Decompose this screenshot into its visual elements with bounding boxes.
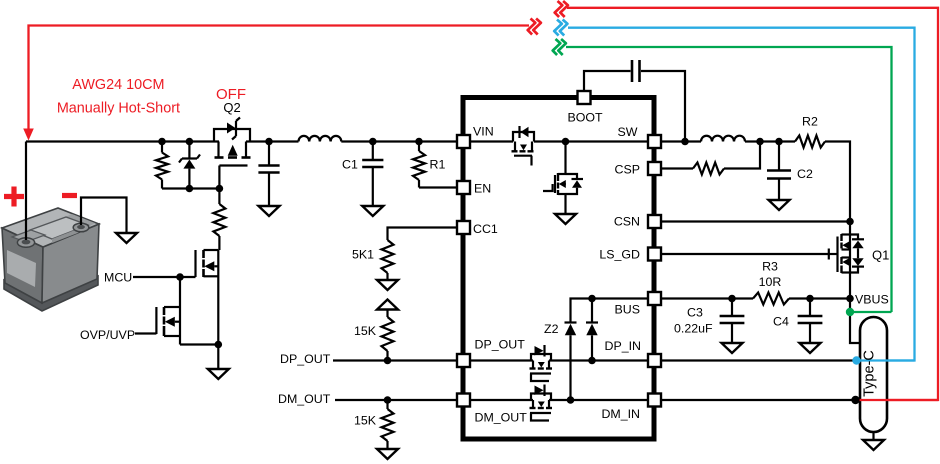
ground gate driver bbox=[208, 369, 229, 379]
pin CSP bbox=[648, 162, 661, 175]
label DM_OUT net bbox=[278, 392, 331, 406]
label 5K1 bbox=[352, 248, 374, 262]
svg-text:10R: 10R bbox=[759, 275, 782, 289]
wire FET to SW node bbox=[534, 140, 648, 142]
wire inductor to R2 bbox=[745, 140, 795, 142]
capacitor C4 bbox=[798, 299, 823, 344]
label VBUS bbox=[855, 293, 889, 307]
node BUS at right zener bbox=[588, 295, 596, 303]
svg-text:R1: R1 bbox=[430, 158, 446, 172]
label LS_GD bbox=[599, 248, 640, 262]
label SW bbox=[618, 125, 638, 139]
label C4 bbox=[773, 315, 789, 329]
transistor internal DP switch bbox=[530, 345, 553, 381]
node zener anode junction bbox=[186, 185, 194, 193]
pin BOOT bbox=[578, 91, 591, 104]
svg-text:DM_OUT: DM_OUT bbox=[475, 411, 528, 425]
pin CC1 bbox=[457, 221, 470, 234]
label OVP/UVP bbox=[80, 328, 135, 342]
ground 5K1 bbox=[377, 280, 398, 290]
node DM_OUT at 15K bbox=[384, 396, 392, 404]
ground C2 bbox=[769, 200, 790, 210]
wire internal DP line bbox=[469, 359, 648, 361]
label DP_IN pin bbox=[605, 339, 642, 353]
wire junction to ground bbox=[217, 345, 219, 370]
zener Z2 right bbox=[586, 299, 598, 361]
inductor input filter bbox=[299, 136, 342, 142]
resistor R1 bbox=[413, 142, 425, 188]
wire gate node down to OVP FET drain bbox=[179, 277, 181, 307]
inductor output L bbox=[701, 136, 745, 142]
svg-text:Type-C: Type-C bbox=[862, 350, 878, 397]
ground battery negative bbox=[116, 233, 137, 243]
wire bootstrap cap to SW bbox=[641, 71, 685, 142]
ground 15K pull (inverted) bbox=[377, 300, 398, 310]
connector Type-C receptacle bbox=[860, 317, 887, 432]
label DP_OUT net bbox=[280, 352, 331, 366]
wire CSN to Q1 bbox=[661, 220, 850, 222]
pin CSN bbox=[648, 215, 661, 228]
wire R2 to CSN junction bbox=[825, 142, 850, 222]
transistor OVP/UVP NMOS bbox=[156, 307, 218, 345]
pin DP_OUT bbox=[457, 354, 470, 367]
node MCU gate / OVP drain junction bbox=[176, 273, 184, 281]
node output at CSP loop bbox=[756, 138, 764, 146]
wire Type-C shield to ground bbox=[872, 432, 874, 440]
wire MCU to gate bbox=[133, 276, 196, 278]
svg-text:15K: 15K bbox=[354, 414, 377, 428]
node SW at bootstrap bbox=[681, 138, 689, 146]
label DM_OUT pin bbox=[475, 411, 528, 425]
capacitor bootstrap bbox=[632, 60, 640, 82]
node Z2 left anode on DM line bbox=[567, 396, 575, 404]
label R1 bbox=[430, 158, 446, 172]
label OFF bbox=[216, 86, 246, 103]
label CSP bbox=[615, 163, 640, 177]
wire LS_GD to Q1 gate bbox=[661, 253, 829, 255]
svg-text:MCU: MCU bbox=[104, 271, 132, 285]
label battery minus terminal bbox=[62, 193, 77, 198]
node FET sources junction bbox=[215, 341, 223, 349]
node CSN R2 junction bbox=[846, 218, 854, 226]
svg-text:C3: C3 bbox=[687, 306, 703, 320]
wire CC1 to divider bbox=[388, 228, 457, 241]
wire green segment to VBUS node bbox=[850, 311, 892, 313]
resistor 5K1 bbox=[382, 240, 394, 280]
pin DM_IN bbox=[648, 394, 661, 407]
node rail at C1 bbox=[369, 138, 377, 146]
label Q1 bbox=[872, 248, 889, 263]
label MCU bbox=[104, 271, 132, 285]
resistor R3 bbox=[753, 293, 789, 305]
node rail at gate pulldown resistor bbox=[158, 138, 166, 146]
wire DP_OUT net bbox=[333, 359, 456, 361]
wire VBUS to Type-C bbox=[850, 299, 860, 344]
svg-text:Q1: Q1 bbox=[872, 248, 889, 263]
ground C3 bbox=[722, 343, 743, 353]
svg-text:C1: C1 bbox=[342, 158, 358, 172]
wire CSP sense bbox=[661, 142, 760, 175]
label 15K DP bbox=[354, 324, 377, 338]
wire DP_IN to Type-C bbox=[661, 359, 856, 361]
node C4 junction bbox=[806, 295, 814, 303]
svg-text:VBUS: VBUS bbox=[855, 293, 889, 307]
wire internal BUS bbox=[571, 299, 649, 323]
pin BUS bbox=[648, 292, 661, 305]
transistor internal low-side FET bbox=[543, 142, 583, 215]
node Q2 gate junction bbox=[216, 185, 224, 193]
wire-break symbol cyan bbox=[554, 20, 567, 36]
ground Type-C bbox=[863, 440, 884, 450]
svg-text:DP_OUT: DP_OUT bbox=[280, 352, 331, 366]
wire SW to inductor bbox=[661, 140, 701, 142]
label CSN bbox=[614, 215, 640, 229]
label battery plus terminal bbox=[4, 187, 24, 207]
label 15K DM bbox=[354, 414, 377, 428]
label DM_IN pin bbox=[601, 407, 640, 421]
svg-text:DP_IN: DP_IN bbox=[605, 339, 642, 353]
node rail at zener bbox=[186, 138, 194, 146]
pin SW bbox=[648, 135, 661, 148]
op-amp U1 buck controller IC body bbox=[463, 98, 654, 440]
wire gate network bottom bbox=[162, 187, 219, 189]
wire OVP/UVP to gate bbox=[135, 332, 156, 334]
node rail at R1 bbox=[415, 138, 423, 146]
svg-text:0.22uF: 0.22uF bbox=[674, 322, 713, 336]
svg-text:BOOT: BOOT bbox=[567, 111, 603, 125]
svg-text:DM_IN: DM_IN bbox=[601, 407, 640, 421]
arrowhead red hot-short wire bbox=[23, 129, 34, 141]
wire battery positive to input rail bbox=[25, 142, 27, 241]
capacitor C1 bbox=[362, 142, 383, 207]
ground 15K DM bbox=[377, 449, 398, 459]
capacitor input bypass bbox=[258, 142, 279, 207]
zener diode gate protection bbox=[179, 142, 200, 189]
svg-text:SW: SW bbox=[618, 125, 638, 139]
label CC1 bbox=[473, 222, 498, 236]
wire red VBUS return (right) bbox=[567, 8, 938, 400]
capacitor C2 bbox=[767, 142, 791, 201]
label Manually Hot-Short bbox=[57, 100, 180, 116]
node rail at input capacitor bbox=[265, 138, 273, 146]
wire internal DM line bbox=[469, 399, 648, 401]
svg-text:VIN: VIN bbox=[473, 125, 494, 139]
svg-text:C2: C2 bbox=[797, 167, 813, 181]
wire red VBUS segment over connector bbox=[856, 399, 938, 401]
wire-break symbol red left bbox=[528, 19, 541, 35]
svg-text:Z2: Z2 bbox=[544, 322, 559, 336]
label VIN bbox=[473, 125, 494, 139]
zener Z2 left bbox=[565, 323, 577, 401]
wire DM_IN to Type-C bbox=[661, 399, 855, 401]
label 10R bbox=[759, 275, 782, 289]
svg-text:15K: 15K bbox=[354, 324, 377, 338]
wire-break symbol red right bbox=[555, 1, 568, 17]
label Type-C bbox=[862, 350, 878, 397]
node output at C2 bbox=[775, 138, 783, 146]
node green VBUS tap bbox=[846, 308, 854, 316]
node DM red tap bbox=[851, 396, 859, 404]
wire cyan segment over connector bbox=[857, 359, 915, 361]
svg-text:CSN: CSN bbox=[614, 215, 640, 229]
label C2 bbox=[797, 167, 813, 181]
wire R1 to EN pin bbox=[419, 186, 456, 188]
transistor MCU control NMOS bbox=[196, 250, 219, 345]
label R2 bbox=[802, 115, 818, 129]
wire input rail left (VBAT) bbox=[26, 140, 299, 142]
transistor internal DM switch bbox=[530, 385, 553, 421]
svg-text:OVP/UVP: OVP/UVP bbox=[80, 328, 135, 342]
svg-text:LS_GD: LS_GD bbox=[599, 248, 640, 262]
transistor Q2 hot-swap PMOS bbox=[214, 118, 251, 189]
pin DP_IN bbox=[648, 354, 661, 367]
node DP_OUT at 15K bbox=[384, 357, 392, 365]
wire red hot-short loop from battery positive bbox=[29, 26, 530, 134]
ground internal FET bbox=[555, 214, 576, 224]
label Z2 bbox=[544, 322, 559, 336]
capacitor C3 bbox=[720, 299, 745, 344]
resistor R2 bbox=[795, 136, 825, 148]
resistor 15K DM pull bbox=[382, 400, 394, 449]
svg-text:R2: R2 bbox=[802, 115, 818, 129]
wire green VBUS sense (right) bbox=[566, 47, 892, 312]
node VBUS bbox=[846, 295, 854, 303]
svg-text:DP_OUT: DP_OUT bbox=[475, 338, 526, 352]
label 0.22uF bbox=[674, 322, 713, 336]
label Q2 bbox=[223, 100, 240, 115]
label DP_OUT pin bbox=[475, 338, 526, 352]
svg-text:Q2: Q2 bbox=[223, 100, 240, 115]
svg-text:BUS: BUS bbox=[615, 303, 640, 317]
node Z2 right anode on DP line bbox=[588, 357, 596, 365]
svg-text:C4: C4 bbox=[773, 315, 789, 329]
ground input bypass cap bbox=[259, 206, 280, 216]
resistor Q2 gate series bbox=[213, 189, 225, 251]
wire battery negative to ground bbox=[81, 198, 127, 234]
battery 12V car battery bbox=[2, 208, 99, 311]
pin LS_GD bbox=[648, 248, 661, 261]
svg-text:5K1: 5K1 bbox=[352, 248, 374, 262]
ground C4 bbox=[800, 343, 821, 353]
svg-text:CC1: CC1 bbox=[473, 222, 498, 236]
wire rail inductor to VIN bbox=[341, 140, 456, 142]
label R3 bbox=[762, 260, 778, 274]
transistor Q1 back-to-back load switch bbox=[829, 222, 864, 299]
node C3 junction bbox=[728, 295, 736, 303]
wire cyan DP (right) bbox=[568, 28, 915, 361]
ground C1 bbox=[362, 206, 383, 216]
transistor internal high-side FET bbox=[469, 126, 534, 166]
svg-text:EN: EN bbox=[474, 182, 491, 196]
label C3 bbox=[687, 306, 703, 320]
node cyan DP tap bbox=[852, 356, 860, 364]
svg-text:Manually Hot-Short: Manually Hot-Short bbox=[57, 100, 180, 116]
svg-text:CSP: CSP bbox=[615, 163, 640, 177]
pin VIN bbox=[457, 135, 470, 148]
resistor 15K DP pull bbox=[382, 310, 394, 361]
svg-text:DM_OUT: DM_OUT bbox=[278, 392, 331, 406]
label BOOT bbox=[567, 111, 603, 125]
pin DM_OUT bbox=[457, 394, 470, 407]
wire BUS to VBUS (R3 net) bbox=[661, 297, 850, 299]
wire BOOT to bootstrap cap bbox=[584, 71, 631, 91]
node internal SW junction bbox=[562, 138, 570, 146]
wire-break symbol green bbox=[553, 39, 566, 55]
svg-text:R3: R3 bbox=[762, 260, 778, 274]
wire DM_OUT net bbox=[335, 399, 456, 401]
label AWG24 10CM bbox=[72, 77, 164, 93]
pin EN bbox=[457, 181, 470, 194]
label C1 bbox=[342, 158, 358, 172]
resistor gate pull-up (source-gate) bbox=[156, 142, 168, 189]
svg-text:AWG24 10CM: AWG24 10CM bbox=[72, 77, 164, 93]
label EN bbox=[474, 182, 491, 196]
label BUS bbox=[615, 303, 640, 317]
